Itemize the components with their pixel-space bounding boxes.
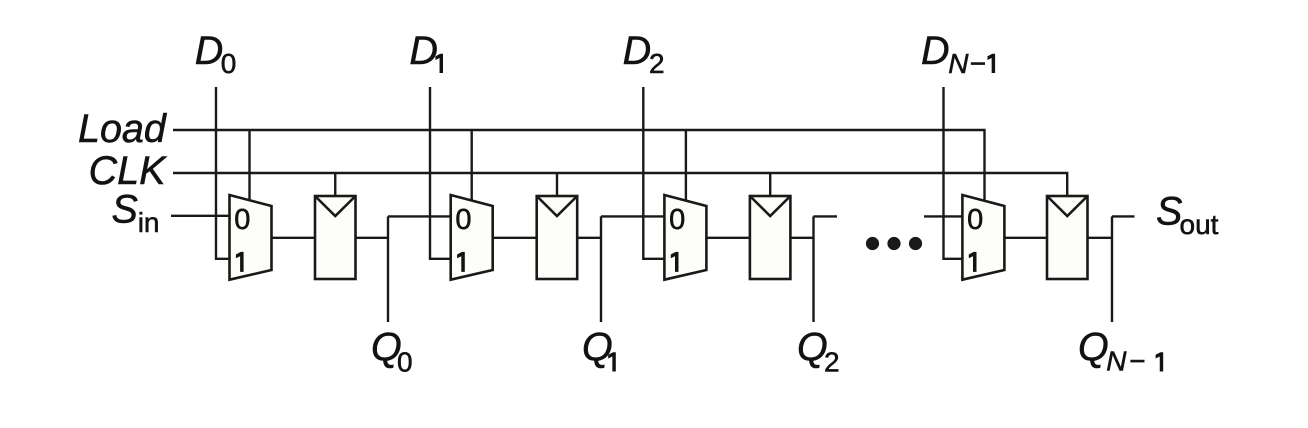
svg-text:Q: Q [1078,326,1109,370]
svg-text:0: 0 [397,346,413,377]
svg-text:0: 0 [221,48,237,79]
svg-text:D: D [921,29,950,73]
svg-text:2: 2 [649,48,665,79]
svg-text:out: out [1180,209,1219,240]
svg-text:0: 0 [234,204,250,236]
svg-text:S: S [1156,190,1182,234]
svg-text:0: 0 [669,204,685,236]
svg-text:D: D [195,29,224,73]
svg-text:2: 2 [824,346,840,377]
svg-text:−: − [970,48,986,79]
svg-text:0: 0 [967,204,983,236]
svg-text:N: N [948,48,969,79]
svg-text:S: S [112,188,138,232]
svg-text:CLK: CLK [89,149,167,193]
svg-text:in: in [138,207,160,238]
svg-text:Load: Load [78,107,168,151]
svg-text:0: 0 [455,204,471,236]
svg-text:−: − [1129,346,1145,377]
svg-text:N: N [1106,346,1127,377]
svg-text:D: D [623,29,652,73]
svg-text:D: D [409,29,438,73]
svg-text:Q: Q [582,326,613,370]
